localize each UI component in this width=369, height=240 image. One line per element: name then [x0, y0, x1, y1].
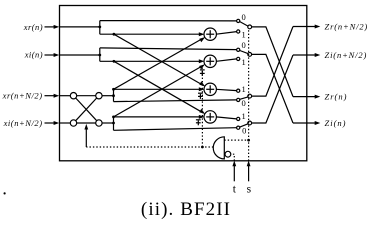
input t arrow: [232, 161, 236, 182]
wire mux1 output to Zr(n): [252, 27, 293, 97]
node ch3 fork junction: [112, 94, 115, 97]
node ch1 bottom rail junction: [113, 33, 116, 36]
adder U3: [204, 83, 216, 95]
wire ch2 fork vertical: [99, 48, 101, 61]
input xi(n) arrow: [45, 53, 60, 57]
input xi(n+N/2) arrow: [45, 121, 60, 125]
wire commutator cross down: [76, 98, 97, 121]
output Zi(n) arrow: [293, 121, 320, 125]
svg-text:Zr(n): Zr(n): [325, 91, 348, 101]
wire cross diagonal ch2 to adder U4: [114, 61, 205, 114]
output Zi(n+N/2) arrow: [293, 53, 320, 57]
stray dot: [4, 192, 6, 194]
svg-text:1: 1: [241, 111, 245, 121]
wire ch1 top rail to mux1-0: [100, 20, 237, 22]
output Zr(n+N/2) arrow: [293, 25, 320, 29]
switch circle S1a: [70, 93, 76, 99]
wire adder U4 output to mux4-1: [216, 117, 236, 119]
switch circle S2a: [70, 120, 76, 126]
svg-text:1: 1: [241, 84, 245, 94]
mux M4: [237, 117, 252, 129]
wire gate output dashed to commutator: [86, 146, 213, 148]
wire ch2 bottom rail into adder U2: [100, 59, 205, 63]
control net sign dashed vertical: [201, 68, 203, 147]
wire ch4 after commutator: [102, 122, 113, 124]
wire between ch3 switches: [77, 95, 96, 97]
node s tap junction: [247, 139, 250, 142]
svg-text:0: 0: [241, 40, 245, 50]
wire mux4 output to Zi(n+N/2): [252, 55, 293, 123]
node ch2 bottom rail junction: [113, 60, 116, 63]
svg-text:(ii). BF2II: (ii). BF2II: [141, 199, 231, 220]
wire ch3 fork vertical: [113, 89, 115, 101]
wire ch3 input to commutator: [60, 95, 71, 97]
wire ch4 bottom rail to mux4-0: [114, 128, 237, 131]
adder U4: [204, 111, 216, 123]
wire ch4 fork vertical: [113, 117, 115, 130]
wire adder U2 output to mux2-1: [216, 59, 236, 61]
svg-text:Zi(n): Zi(n): [325, 118, 347, 128]
control net s vertical dashed: [248, 29, 250, 161]
input xr(n+N/2) arrow: [45, 94, 60, 98]
control net t vertical dashed: [233, 154, 235, 161]
svg-text:xr(n+N/2): xr(n+N/2): [2, 91, 43, 101]
wire ch3 top rail into adder U3: [114, 87, 205, 91]
svg-text:0: 0: [242, 126, 246, 136]
wire ch2 input inside box: [60, 54, 100, 56]
outer box: [60, 6, 307, 161]
wire ch1 fork vertical: [99, 21, 101, 35]
svg-text:0: 0: [241, 98, 245, 108]
node ch1 fork junction: [98, 26, 101, 29]
wire between ch4 switches: [77, 122, 96, 124]
svg-text:Zi(n+N/2): Zi(n+N/2): [325, 50, 368, 60]
svg-text:0: 0: [241, 12, 245, 22]
wire ch3 after commutator: [102, 95, 113, 97]
node ch4 fork junction: [112, 122, 115, 125]
gate U5 input bubble: [225, 151, 231, 157]
svg-text:Zr(n+N/2): Zr(n+N/2): [325, 21, 369, 31]
wire ch1 input inside box: [60, 26, 100, 28]
node ch4 fork top corner: [112, 116, 115, 119]
sign control ∓ at adder U4: [196, 120, 201, 126]
wire adder U1 output to mux1-1: [216, 32, 236, 35]
switch circle S2b: [96, 120, 102, 126]
wire adder U3 output to mux3-1: [216, 89, 236, 90]
wire commutator cross up: [76, 98, 97, 121]
svg-text:xr(n): xr(n): [23, 22, 43, 32]
sign control ∓ at adder U3: [198, 93, 203, 99]
svg-text:xi(n): xi(n): [24, 49, 43, 59]
wire ch2 top rail to mux2-0: [100, 48, 237, 50]
adder U2: [204, 55, 216, 67]
node ch2 fork junction: [98, 54, 101, 57]
wire cross diagonal ch1 to adder U3: [114, 34, 205, 86]
output Zr(n) arrow: [293, 95, 320, 99]
wire mux2 output to Zi(n): [252, 54, 293, 123]
wire ch4 top rail into adder U4: [114, 115, 205, 119]
svg-text:s: s: [247, 183, 252, 195]
wire ch1 bottom rail into adder U1: [100, 32, 205, 36]
input xr(n) arrow: [45, 25, 60, 29]
input s arrow: [247, 161, 251, 182]
wire cross diagonal ch4 to adder U2: [114, 64, 205, 117]
sign control ∓ at adder U2: [200, 70, 205, 76]
wire ch3 bottom rail to mux3-0: [114, 100, 237, 102]
svg-text:1: 1: [241, 30, 245, 40]
wire cross diagonal ch3 to adder U1: [114, 37, 206, 89]
wire gate input from s dashed: [224, 139, 248, 141]
wire mux3 output to Zr(n+N/2): [252, 27, 293, 97]
node gate output junction: [201, 146, 204, 149]
wire t to gate bubble dashed: [231, 153, 234, 155]
gate U5 AND (left-facing): [213, 137, 224, 159]
svg-text:1: 1: [241, 57, 245, 67]
commutator control arrow: [84, 124, 88, 147]
mux M3: [237, 89, 252, 101]
svg-text:t: t: [233, 183, 237, 195]
mux M2: [237, 48, 252, 60]
adder U1: [204, 28, 216, 40]
mux M1: [237, 19, 252, 33]
node ch3 fork top corner: [112, 88, 115, 91]
wire ch4 input to commutator: [60, 122, 71, 124]
switch circle S1b: [96, 93, 102, 99]
svg-text:xi(n+N/2): xi(n+N/2): [3, 118, 43, 128]
